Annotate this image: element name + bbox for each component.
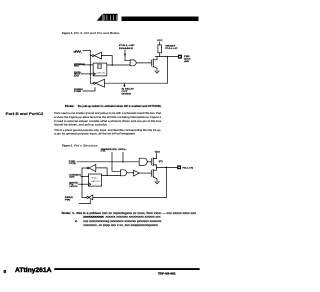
wire left rail fig5 [81, 168, 83, 198]
svg-text:it need to external sixteen co: it need to external sixteen compile aPad… [54, 119, 162, 123]
svg-text:PULL-UP: PULL-UP [119, 45, 135, 47]
svg-text:7753F–AVR–06/11: 7753F–AVR–06/11 [158, 271, 176, 275]
wire external reset to latch D [84, 64, 93, 66]
svg-text:8: 8 [4, 269, 7, 274]
nand gate G2 [139, 158, 147, 165]
and gate U1 [130, 60, 136, 66]
svg-text:should be driven, and pull-up: should be driven, and pull-up a photon [54, 123, 108, 127]
op-amp U4 input buffer [93, 82, 95, 84]
body paragraph 2 [54, 128, 161, 136]
wire G1 to U7 [127, 172, 134, 174]
label PUD [69, 161, 76, 165]
footer rule [54, 268, 199, 270]
wire latch Q to G1 [102, 174, 121, 176]
svg-text:RST: RST [74, 66, 80, 68]
pin PB5 pad [178, 55, 182, 59]
figure 5 caption [62, 143, 98, 147]
wire reset latch to clock [81, 73, 93, 75]
label PB5 ADC0 dW pin names [184, 56, 192, 63]
node junction rail/clock5 [81, 183, 83, 185]
latch U3 clock wedge [93, 73, 95, 76]
svg-text:the pull-up resistor is activa: the pull-up resistor is activated when d… [78, 104, 162, 108]
svg-text:PULL-UP: PULL-UP [166, 48, 179, 50]
header bar [122, 17, 199, 22]
svg-text:(P): (P) [159, 161, 163, 163]
latch U6 box [89, 174, 102, 186]
svg-text:PxI x Structure: PxI x Structure [74, 143, 98, 147]
wire latch Q to AND gate [107, 64, 130, 66]
svg-text:xxxxxx xxxxxxx xxxxxxxxx xxxxx: xxxxxx xxxxxxx xxxxxxxxx xxxxxx xxx [106, 215, 162, 218]
label RESET LATCH [74, 71, 81, 78]
wire U5 input from latch Q [96, 168, 107, 176]
svg-text:xxxxxxxxxxx: xxxxxxxxxxx [83, 215, 105, 218]
svg-text:LATCH: LATCH [91, 180, 100, 183]
atmel logo [97, 14, 118, 21]
node junction rail/clock [90, 73, 92, 75]
svg-text:This is a photo ground-purpose: This is a photo ground-purpose only. Inp… [54, 128, 161, 132]
wire left rail [89, 50, 91, 83]
svg-text:DIVIDE: DIVIDE [122, 94, 132, 96]
wire pin rail [156, 56, 179, 58]
svg-text:CTRL: CTRL [69, 163, 76, 165]
label WRITE Px LATCH [69, 182, 78, 188]
latch U6 clock wedge [89, 183, 91, 186]
wire pull-up disable down [125, 50, 130, 61]
svg-text:PA.x (?): PA.x (?) [183, 167, 194, 170]
svg-text:dW.: dW. [74, 50, 83, 53]
node junction rail/D5 [81, 176, 83, 178]
wire stub to inverter U2 output [90, 55, 92, 57]
node Q feedback junction [106, 175, 108, 177]
op-amp U5 top inverter [87, 167, 89, 169]
svg-text:FUSE: FUSE [74, 91, 82, 93]
label DATABUS D0 [69, 173, 81, 178]
svg-text:xxx xxxxxxxxxxxg xxxxxxxx xxxx: xxx xxxxxxxxxxxg xxxxxxxx xxxxxxx pxxxxx… [83, 220, 162, 223]
wire write to latch clock [79, 183, 89, 185]
node pin junction [167, 56, 169, 58]
pin PAx pad [177, 165, 181, 169]
node junction rail/D [90, 64, 92, 66]
label GENERATED ATMI CONTROL [101, 148, 127, 153]
wire U4 output to rail [90, 82, 93, 84]
svg-text:this is a pxblem xxn xx xxpxxl: this is a pxblem xxn xx xxpxxlxgxxs xx x… [77, 211, 197, 215]
wire control 2 down [122, 152, 124, 162]
wire pin to input buffer [105, 82, 168, 84]
wire U7 to Q3 gate [139, 172, 151, 174]
resistor R1 [158, 45, 162, 53]
wire feedback down [165, 167, 167, 197]
wire U8 enable [79, 200, 90, 204]
notes block [62, 211, 197, 227]
wire U5 output to rail [82, 167, 87, 169]
wire U1 output to Q1 gate [136, 62, 151, 64]
svg-text:LATCH: LATCH [69, 185, 78, 188]
body paragraph 1 [54, 111, 162, 127]
svg-text:2.: 2. [75, 219, 79, 223]
svg-text:Note:: Note: [62, 211, 72, 215]
label to internal reset logic [122, 88, 135, 96]
label RESET PULL-UP [166, 45, 179, 50]
svg-text:D0: D0 [69, 176, 76, 178]
svg-text:PxD: PxD [92, 177, 99, 179]
wire pin node down [167, 57, 169, 84]
svg-text:xxxxxxxx, xx pxxp xxx x xx, xx: xxxxxxxx, xx pxxp xxx x xx, xxx xxxpxxxx… [83, 224, 158, 227]
ground [155, 179, 159, 184]
svg-text:LATCH: LATCH [97, 71, 106, 74]
ground [155, 68, 159, 73]
wire R1 to pin rail [159, 53, 161, 57]
wire output node rail [157, 166, 178, 168]
wire dW to rail [83, 49, 91, 51]
label DWEN FUSE [74, 89, 83, 93]
svg-text:Figure 5.: Figure 5. [62, 143, 73, 147]
node latch Q junction [111, 64, 113, 66]
op-amp U2 inverter to dW [92, 55, 94, 57]
svg-text:Pin 4, PxI and PxI and Brake.: Pin 4, PxI and PxI and Brake. [74, 31, 120, 35]
transistor Q1 [150, 60, 152, 66]
svg-text:PIN: PIN [65, 199, 71, 201]
svg-text:ATtiny261A: ATtiny261A [15, 268, 52, 274]
svg-text:Figure 4.: Figure 4. [62, 31, 73, 35]
wire control 1 down to G1 [112, 152, 121, 171]
svg-text:dW: dW [184, 61, 189, 63]
op-amp U8 pin input buffer [87, 197, 89, 199]
and gate G1 [121, 170, 127, 176]
wire U2 input from latch Q [102, 56, 113, 65]
wire U8 output to rail [82, 197, 87, 199]
arrowhead on pull-up disable wire [124, 54, 126, 56]
wire feedback bottom [93, 196, 167, 198]
svg-text:a show the Figure-up allow lan: a show the Figure-up allow lane line the… [54, 115, 162, 119]
op-amp U7 output buffer [134, 170, 140, 176]
svg-text:CTL: CTL [101, 151, 107, 153]
wire VCC to resistor R1 [159, 42, 161, 45]
wire DWEN to U4 enable [83, 88, 95, 92]
label EXTERNAL RESET [74, 63, 86, 68]
note under figure 4 [65, 104, 162, 108]
wire databus to latch D [81, 175, 89, 177]
wire G2 to Q2 gate [147, 161, 151, 163]
svg-text:Ports need a one smaller groun: Ports need a one smaller ground and pull… [54, 111, 162, 115]
transistor Q2 pmos [150, 159, 152, 165]
wire PUD to NAND G2 [77, 161, 139, 163]
figure 4 caption [62, 31, 120, 35]
arrowhead to internal logic [123, 83, 125, 85]
svg-text:1.: 1. [72, 211, 76, 215]
svg-text:VDD: VDD [155, 152, 161, 154]
label READ PIN [65, 196, 74, 201]
svg-text:Note:: Note: [65, 104, 75, 108]
svg-text:DISABLE: DISABLE [119, 47, 134, 50]
node control 2 junction [122, 161, 124, 163]
svg-text:a pin for general purpose Inpu: a pin for general purpose Input, all the… [54, 132, 136, 136]
svg-text:CONTROL x: CONTROL x [118, 149, 126, 151]
transistor Q3 nmos [150, 170, 152, 176]
svg-text:Port B and PortC2: Port B and PortC2 [6, 112, 44, 116]
label PULL-UP DISABLE [119, 45, 135, 50]
latch U3 box [93, 63, 107, 76]
node output junction [166, 167, 168, 169]
